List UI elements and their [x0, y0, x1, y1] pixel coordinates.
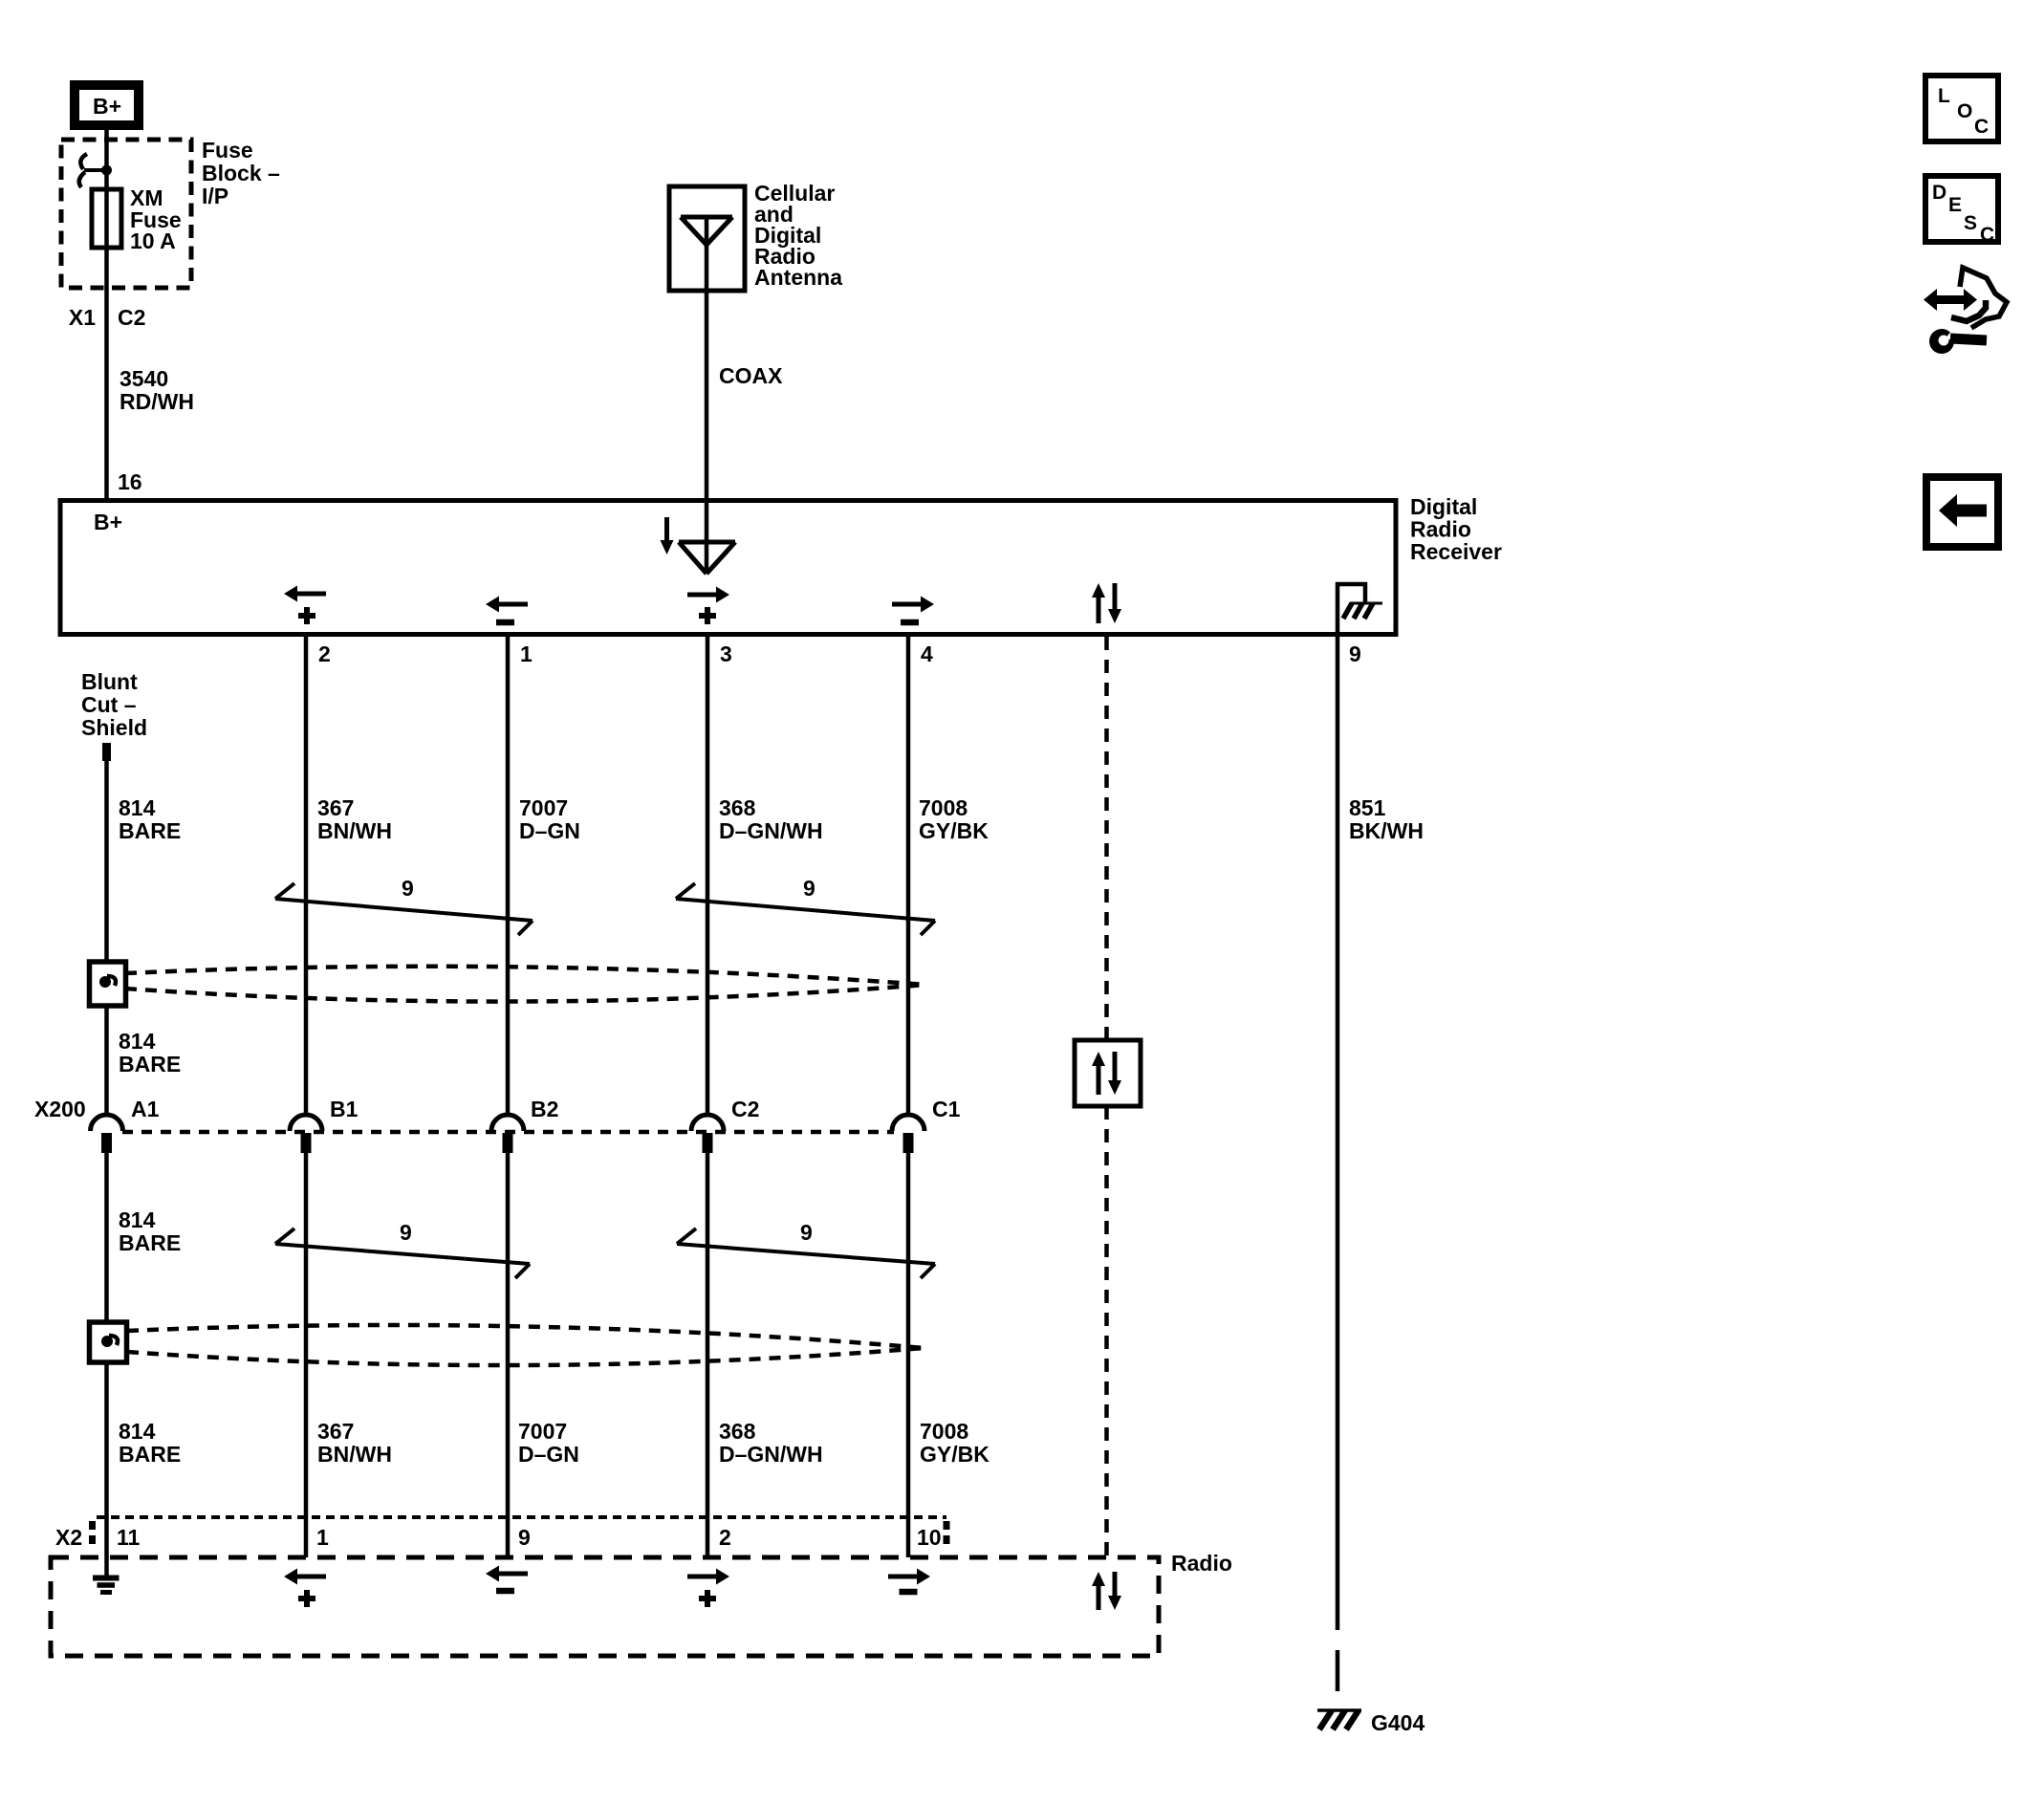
- svg-text:BARE: BARE: [119, 1442, 181, 1467]
- svg-text:2: 2: [719, 1525, 731, 1550]
- svg-text:BARE: BARE: [119, 1230, 181, 1255]
- svg-text:814: 814: [119, 1207, 156, 1232]
- svg-text:B+: B+: [93, 94, 121, 119]
- svg-text:D–GN: D–GN: [518, 1442, 579, 1467]
- svg-text:BARE: BARE: [119, 1052, 181, 1076]
- svg-text:367: 367: [317, 795, 354, 820]
- svg-text:Receiver: Receiver: [1410, 539, 1502, 564]
- svg-text:1: 1: [520, 642, 533, 666]
- svg-text:X1: X1: [69, 305, 96, 330]
- svg-text:10: 10: [917, 1525, 942, 1550]
- svg-text:Block –: Block –: [202, 161, 280, 185]
- svg-text:9: 9: [518, 1525, 531, 1550]
- svg-text:B2: B2: [531, 1097, 558, 1121]
- svg-text:GY/BK: GY/BK: [920, 1442, 989, 1467]
- svg-text:BN/WH: BN/WH: [317, 1442, 392, 1467]
- svg-text:D–GN/WH: D–GN/WH: [719, 818, 823, 843]
- svg-text:7008: 7008: [920, 1419, 968, 1444]
- svg-text:9: 9: [800, 1220, 813, 1245]
- svg-text:Shield: Shield: [81, 715, 147, 740]
- svg-text:Radio: Radio: [1171, 1551, 1232, 1576]
- svg-text:2: 2: [318, 642, 331, 666]
- svg-text:A1: A1: [131, 1097, 160, 1121]
- svg-text:7008: 7008: [919, 795, 968, 820]
- svg-text:4: 4: [921, 642, 933, 666]
- svg-text:9: 9: [400, 1220, 412, 1245]
- svg-text:9: 9: [402, 876, 414, 901]
- svg-text:16: 16: [118, 469, 142, 494]
- svg-text:C1: C1: [932, 1097, 961, 1121]
- svg-text:9: 9: [803, 876, 815, 901]
- svg-text:10 A: 10 A: [130, 228, 176, 253]
- svg-text:7007: 7007: [519, 795, 568, 820]
- svg-text:851: 851: [1349, 795, 1386, 820]
- svg-text:BARE: BARE: [119, 818, 181, 843]
- svg-text:Cut –: Cut –: [81, 692, 137, 717]
- svg-text:814: 814: [119, 1029, 156, 1054]
- svg-text:C2: C2: [731, 1097, 759, 1121]
- svg-text:D–GN: D–GN: [519, 818, 580, 843]
- svg-text:3540: 3540: [120, 366, 168, 391]
- svg-text:E: E: [1948, 194, 1962, 216]
- svg-text:C2: C2: [118, 305, 145, 330]
- svg-text:Radio: Radio: [1410, 517, 1471, 542]
- svg-text:C: C: [1980, 224, 1994, 246]
- svg-text:D: D: [1932, 182, 1946, 204]
- svg-text:X200: X200: [34, 1097, 86, 1121]
- svg-text:I/P: I/P: [202, 184, 228, 208]
- svg-text:BN/WH: BN/WH: [317, 818, 392, 843]
- svg-text:G404: G404: [1371, 1710, 1424, 1735]
- svg-text:D–GN/WH: D–GN/WH: [719, 1442, 823, 1467]
- svg-text:O: O: [1957, 100, 1972, 122]
- svg-text:GY/BK: GY/BK: [919, 818, 989, 843]
- svg-text:X2: X2: [55, 1525, 82, 1550]
- svg-text:COAX: COAX: [719, 363, 783, 388]
- svg-text:Digital: Digital: [1410, 494, 1477, 519]
- svg-text:Antenna: Antenna: [754, 265, 842, 290]
- svg-text:Fuse: Fuse: [202, 138, 253, 163]
- svg-text:L: L: [1938, 85, 1950, 107]
- svg-text:7007: 7007: [518, 1419, 567, 1444]
- svg-text:S: S: [1964, 212, 1977, 234]
- svg-text:1: 1: [316, 1525, 329, 1550]
- svg-text:B+: B+: [94, 510, 122, 534]
- svg-text:C: C: [1974, 116, 1989, 138]
- svg-text:3: 3: [720, 642, 732, 666]
- svg-text:RD/WH: RD/WH: [120, 389, 194, 414]
- svg-text:368: 368: [719, 1419, 756, 1444]
- svg-text:11: 11: [117, 1525, 141, 1550]
- svg-text:814: 814: [119, 795, 156, 820]
- svg-text:9: 9: [1349, 642, 1361, 666]
- svg-text:B1: B1: [330, 1097, 359, 1121]
- svg-text:Blunt: Blunt: [81, 669, 138, 694]
- svg-text:367: 367: [317, 1419, 354, 1444]
- svg-text:814: 814: [119, 1419, 156, 1444]
- svg-text:368: 368: [719, 795, 756, 820]
- svg-text:BK/WH: BK/WH: [1349, 818, 1424, 843]
